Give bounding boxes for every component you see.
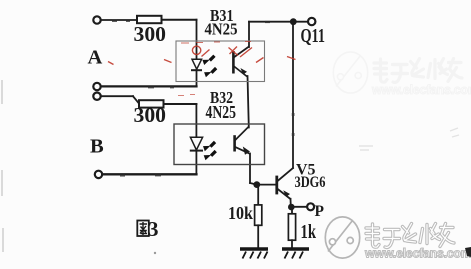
svg-text:P: P: [315, 203, 325, 220]
svg-text:300: 300: [134, 22, 167, 46]
svg-text:300: 300: [134, 103, 167, 127]
svg-text:A: A: [88, 47, 103, 69]
svg-text:10k: 10k: [228, 203, 253, 223]
svg-text:4N25: 4N25: [206, 102, 237, 122]
svg-text:www.elecfans.com: www.elecfans.com: [364, 247, 471, 261]
svg-text:3DG6: 3DG6: [295, 174, 326, 191]
svg-text:B: B: [90, 136, 104, 158]
svg-text:Q11: Q11: [301, 26, 326, 47]
svg-text:www.elecfans.com: www.elecfans.com: [371, 83, 471, 97]
svg-text:1k: 1k: [301, 221, 317, 243]
svg-text:4N25: 4N25: [205, 20, 238, 39]
